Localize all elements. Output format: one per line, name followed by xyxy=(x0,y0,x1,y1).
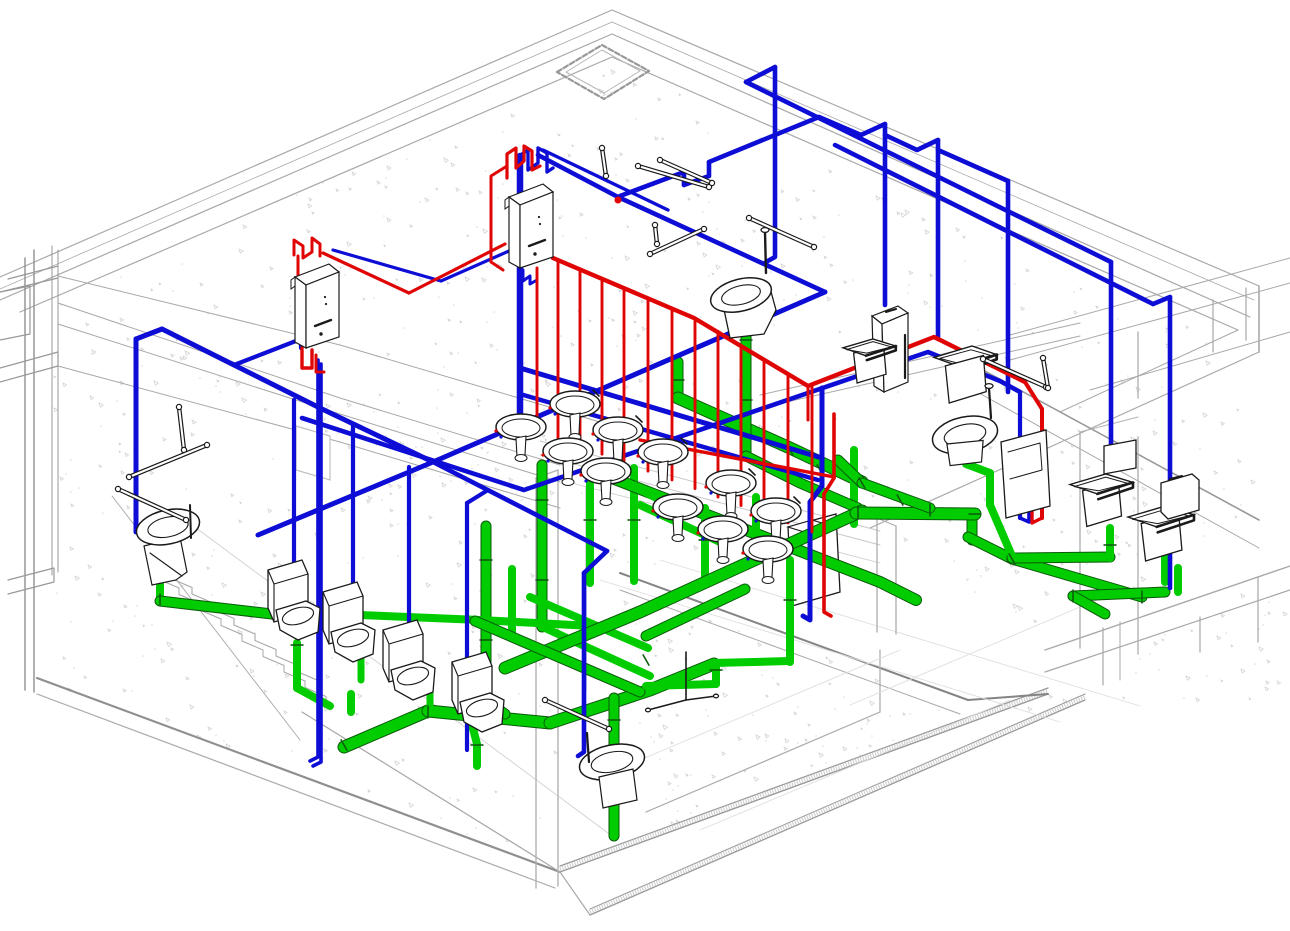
red comb drop 4 xyxy=(623,288,626,462)
lavatory basin row1 3 xyxy=(638,438,688,489)
green lav stack 3 xyxy=(537,465,548,627)
green wall toilet drain elbow xyxy=(746,456,858,508)
bottom toilet bowl xyxy=(576,739,648,786)
toilet upper right tall tank xyxy=(872,306,908,392)
right bench leg 2 xyxy=(1199,617,1201,652)
handicap toilet left brace xyxy=(150,553,182,576)
right bench leg 3 xyxy=(1257,578,1259,642)
blue riser left elbow xyxy=(136,329,162,339)
roof ceiling inner edge xyxy=(20,57,1238,330)
right bench leg 1 xyxy=(1102,628,1104,685)
right wall face speckle texture xyxy=(904,409,1255,623)
right partition top xyxy=(1080,417,1138,432)
blue pair V from heater1 xyxy=(333,250,509,281)
lavatory basin row1 2 xyxy=(593,416,643,467)
red feeder central xyxy=(640,440,834,477)
basin supply connection dots xyxy=(494,406,757,560)
square sink right B xyxy=(1128,506,1194,561)
cistern small right xyxy=(1104,440,1136,474)
green lav diag 1 xyxy=(530,597,648,648)
red hook under heater1 b xyxy=(316,355,324,372)
roof right corner vertical edge xyxy=(1258,286,1260,352)
red pair rise to heater2 xyxy=(409,244,505,293)
left ledge bottom xyxy=(8,568,54,594)
blue hook right cluster xyxy=(1020,500,1029,522)
toilet 5 cistern type xyxy=(452,652,504,732)
wall toilet flush cap xyxy=(761,228,769,233)
grab bar right cluster xyxy=(980,356,1048,389)
roof post right 2 xyxy=(1245,288,1247,340)
wc partition wall left edge2 xyxy=(557,470,559,886)
green sink A drop xyxy=(1106,528,1114,558)
red junction dot xyxy=(615,197,622,204)
lavatory basin row1 5 xyxy=(751,497,801,548)
mid partition edge 1 xyxy=(876,518,878,632)
right floor edge lower xyxy=(970,388,1259,548)
blue H3 elbow xyxy=(1153,297,1170,304)
green drain handicap toilet vertical xyxy=(156,575,164,601)
green right diag from manifold xyxy=(968,537,1012,559)
blue branch down right xyxy=(433,462,607,551)
roof skylight inner xyxy=(566,50,640,93)
green main run left cap xyxy=(344,711,428,747)
green vertical x790 xyxy=(786,560,794,662)
blue heater2 zigzag xyxy=(519,148,553,180)
blue riser toilet 4 xyxy=(407,467,411,667)
toilet 2 cistern type xyxy=(268,560,320,640)
blue riser left xyxy=(134,339,139,532)
green vertical x756 xyxy=(752,497,760,529)
square sink mid cluster xyxy=(843,339,896,383)
floor slab lower hatched edge xyxy=(590,700,1085,915)
red comb drop 9 xyxy=(740,346,743,506)
green lav stack 1 xyxy=(486,526,505,714)
flush pipe right cluster xyxy=(904,335,906,378)
blue riser x1008 xyxy=(1006,181,1011,392)
mid wall bottom edge xyxy=(646,712,880,812)
left pilaster column edge 2 xyxy=(33,250,35,692)
green toilet right drain xyxy=(1174,568,1182,592)
right bench front edge xyxy=(1045,590,1290,672)
floor tile joint 2 xyxy=(660,560,1140,706)
wall niche below heater 1 xyxy=(296,426,330,480)
red vertical x834 xyxy=(832,414,836,478)
right toilet Tb flush pipe xyxy=(989,388,991,418)
grab bar top 2 xyxy=(635,163,711,189)
right partition 1 xyxy=(1079,432,1081,648)
red comb drop 6 xyxy=(671,309,674,480)
green manifold horizontal xyxy=(856,513,975,514)
floor slab front-left hatched edge xyxy=(560,694,1048,872)
green main run rise xyxy=(550,664,714,723)
green lav diag 2 xyxy=(545,628,650,676)
grab bar left vertical xyxy=(176,404,186,452)
green lav row run xyxy=(360,615,610,627)
green right horizontal 2 xyxy=(1073,592,1165,596)
staircase steps xyxy=(150,563,318,687)
blue drop heater1 stub xyxy=(299,339,303,348)
red heater2 left loop xyxy=(491,166,507,270)
lavatory basin row2 5 xyxy=(698,516,748,564)
water heater 1 xyxy=(291,264,339,348)
blue header jog 1 xyxy=(620,172,684,196)
lavatory basin row2 4 xyxy=(653,494,703,542)
left pilaster column outer edge xyxy=(24,258,26,690)
left wall band line 4 xyxy=(58,366,560,508)
floor tile joint 4 xyxy=(640,650,900,760)
roof seam line left xyxy=(0,22,612,289)
green sink B drop xyxy=(1161,558,1169,582)
green manifold drop connector xyxy=(967,514,978,540)
wall toilet bowl xyxy=(707,272,775,318)
blue riser x1111 xyxy=(1109,262,1114,445)
stair stringer line xyxy=(112,496,300,740)
lavatory counter line 2 xyxy=(540,455,880,545)
green pipe fitting marks xyxy=(160,340,1142,800)
blue header to J2 xyxy=(709,117,819,162)
red comb drop 10 xyxy=(763,360,766,514)
green lav stack 2 xyxy=(508,569,516,637)
green upper lav diag b xyxy=(640,505,720,542)
blue tee riser x517 branch xyxy=(520,368,822,458)
urinal panel inner xyxy=(1008,443,1042,479)
lavatory basin row1 1 xyxy=(550,390,600,441)
red comb drop 7 xyxy=(694,319,697,489)
toilet right square type xyxy=(934,346,997,403)
mid lower wall face speckle texture xyxy=(624,601,879,800)
blue header jog 2 xyxy=(684,162,709,185)
grab bar right vertical xyxy=(1040,355,1050,390)
green upper lav diag a xyxy=(604,470,660,500)
red rail elbow xyxy=(1025,382,1042,409)
red heater2 zigzag xyxy=(507,146,540,178)
square sink right A xyxy=(1070,474,1133,527)
toilet 4 cistern type xyxy=(383,620,435,700)
green drain toilet 4 xyxy=(427,688,434,706)
floor slab front-left hatch ticks xyxy=(560,691,1048,869)
red comb drop 2 xyxy=(579,270,582,446)
toilet far right tank xyxy=(1161,474,1199,519)
right wall band 2 xyxy=(1010,283,1290,360)
green elbow x716 xyxy=(712,663,720,684)
green drain toilet 3 xyxy=(358,658,365,680)
left wall band line 2 xyxy=(58,303,560,465)
wc partition wall right xyxy=(585,486,587,690)
stair stringer second xyxy=(180,516,612,836)
floor slab front-left hatched edge b xyxy=(560,688,1048,866)
roof fascia bottom right edge xyxy=(870,352,1259,528)
green right diag 2 xyxy=(1012,559,1142,597)
left wall band line 3 xyxy=(58,324,560,482)
red comb drop 1 xyxy=(557,260,560,438)
red hooks under heater1 xyxy=(302,348,312,368)
red comb drop 8 xyxy=(717,332,720,497)
green right stub xyxy=(1073,596,1105,614)
left ledge lower xyxy=(0,352,58,382)
floor slab left lower edge xyxy=(302,712,590,915)
grab bar top 1 xyxy=(599,145,608,178)
red heater1 zigzag xyxy=(294,238,320,258)
roof fascia bottom right inner xyxy=(1060,330,1238,412)
green manifold upper branch 2 xyxy=(862,483,930,508)
grab bar handicap diag xyxy=(115,486,188,522)
red comb drop heater xyxy=(536,268,539,432)
blue riser x885 xyxy=(883,124,888,305)
red hook x1042 xyxy=(1032,505,1042,523)
lavatory basin row2 1 xyxy=(496,414,546,462)
blue header peak tap 1 xyxy=(819,117,885,135)
blue riser x467 tap xyxy=(467,490,488,503)
thin pipe bottom vertical xyxy=(685,652,687,700)
handicap toilet left bowl xyxy=(133,504,203,551)
green manifold upper branch xyxy=(838,460,862,483)
staircase steps inner xyxy=(158,579,326,703)
left wall bottom edge inner xyxy=(37,694,555,888)
right column mid xyxy=(1137,332,1139,398)
right toilet Tb bowl xyxy=(929,411,1001,466)
green right upper elbow xyxy=(966,464,990,473)
green vertical x705 xyxy=(701,508,709,580)
floor slab lower hatched edge b xyxy=(590,694,1085,909)
lavatory basin row1 4 xyxy=(706,469,756,520)
lavatory basin row2 6 xyxy=(743,536,793,584)
red comb rail xyxy=(553,258,1025,386)
red pair heater1 to V xyxy=(323,253,409,293)
blue elbow to riser x584 xyxy=(584,551,607,573)
water heater 2 xyxy=(505,184,553,268)
roof post right 1 xyxy=(1212,300,1214,352)
thin pipe cap b xyxy=(714,694,719,698)
roof fascia inner edge xyxy=(0,34,1250,317)
right back wall band 1 xyxy=(760,323,1080,395)
blue header seg 3 xyxy=(938,150,1008,181)
green right connect xyxy=(990,505,1012,556)
blue vertical right cluster xyxy=(1018,392,1022,518)
blue diag H3 xyxy=(835,145,1153,304)
green main downleft run xyxy=(505,511,862,668)
green run from wc stack xyxy=(678,398,862,482)
blue branch to heater 1 xyxy=(234,339,301,365)
thin pipe cap a xyxy=(646,708,651,712)
bottom toilet flush pipe xyxy=(587,733,589,762)
blue jog x822 xyxy=(810,486,822,502)
trough sink unit xyxy=(788,514,840,606)
grab bar mid left xyxy=(647,226,706,256)
green wall toilet drain xyxy=(741,315,752,456)
grab bar left horizontal xyxy=(126,442,209,479)
blue double vertical a xyxy=(310,360,318,761)
blue heater2 pair second xyxy=(543,150,668,210)
blue riser x1170 xyxy=(1168,297,1173,588)
blue second central diagonal xyxy=(520,394,818,480)
left wall bottom edge double xyxy=(37,678,560,872)
roof outer edge xyxy=(0,10,1259,286)
red vertical x824 xyxy=(824,494,831,616)
upper floor front edge inner xyxy=(620,590,960,714)
blue V supply run xyxy=(302,352,1020,490)
lavatory basin row2 2 xyxy=(543,438,593,486)
green lav stack 5 xyxy=(630,468,638,581)
blue riser toilet 3 xyxy=(351,424,355,637)
left pilaster column edge 3 xyxy=(51,246,53,575)
roof skylight opening xyxy=(557,45,649,99)
roof seam line right xyxy=(612,22,1254,300)
blue long diag H2 xyxy=(746,82,1111,262)
right toilet Tb flush cap xyxy=(985,384,993,389)
grab bar bottom toilet xyxy=(542,697,611,731)
blue riser toilet 2 xyxy=(292,400,296,606)
wall toilet flush pipe vert xyxy=(765,232,766,273)
right partition 2 xyxy=(1137,437,1139,654)
green lav stack 4 xyxy=(586,468,594,583)
blue riser x775 xyxy=(766,67,775,262)
green second long diagonal xyxy=(612,478,916,600)
left pilaster column edge 4 xyxy=(57,250,59,572)
blue riser x938 xyxy=(936,140,941,338)
green vertical x854 xyxy=(850,450,858,524)
mid partition top xyxy=(877,518,896,526)
green lav long diag xyxy=(475,621,640,692)
grab bar near wall toilet xyxy=(746,215,816,249)
blue riser toilet 3 tap xyxy=(347,421,353,424)
blue header seg 2 xyxy=(885,135,938,150)
blue vertical x822 xyxy=(820,388,825,486)
left pilaster capital top xyxy=(8,266,58,279)
left wall face speckle texture xyxy=(54,323,557,842)
red heater1 drop xyxy=(297,256,300,276)
mid partition edge 2 xyxy=(895,526,897,634)
green drop stack behind toilet xyxy=(609,698,620,836)
green drain toilet 2 vertical xyxy=(293,643,301,688)
floor tile joint 1 xyxy=(600,580,1060,722)
green drain run to toilet 2 xyxy=(160,601,272,614)
red comb drop 3 xyxy=(601,279,604,454)
blue riser x584 xyxy=(578,573,584,756)
blue thick riser x517 xyxy=(517,156,524,420)
blue riser x467 xyxy=(465,503,469,750)
green drain toilet 2 elbow xyxy=(297,688,330,706)
left pilaster capital box xyxy=(0,286,30,340)
urinal panel right xyxy=(1001,430,1050,518)
upper floor front edge xyxy=(620,573,1048,700)
green right upper vertical xyxy=(986,473,994,505)
green branch drop xyxy=(470,717,477,766)
blue header left xyxy=(162,329,433,462)
green horizontal y683 xyxy=(646,684,716,686)
green wc stack upper xyxy=(673,362,684,396)
blue double vertical b xyxy=(313,364,321,766)
handicap toilet left frame xyxy=(144,537,187,585)
floor slab lower hatch ticks xyxy=(590,697,1085,912)
green right horizontal xyxy=(1012,557,1110,558)
right floor edge upper xyxy=(970,363,1259,520)
bottom toilet pedestal xyxy=(599,769,637,808)
right back wall band 2 xyxy=(760,336,1080,408)
red jog x834 xyxy=(824,478,834,494)
floor tile joint 3 xyxy=(700,700,1010,830)
floor tile joint 5 xyxy=(850,590,1120,705)
blue main diagonal from heater pair xyxy=(433,292,825,462)
red comb drop 11 xyxy=(787,374,790,523)
thin pipe bottom diag xyxy=(648,696,716,710)
right bench top edge xyxy=(1045,566,1290,650)
ceiling slab face speckle texture xyxy=(60,70,1210,565)
left pilaster capital mid xyxy=(0,278,58,292)
wall toilet body xyxy=(722,288,776,338)
mid wall end vertical xyxy=(879,650,881,712)
right upper beam xyxy=(1090,332,1290,390)
blue diagonal continue to toilets xyxy=(258,462,433,535)
left wall top band line 1 xyxy=(58,276,620,428)
red comb drop 12 xyxy=(811,384,814,531)
wc partition wall left xyxy=(535,478,537,888)
toilet 3 cistern type xyxy=(323,582,375,662)
handicap toilet flush pipe xyxy=(190,505,191,538)
green main run mid xyxy=(428,711,550,723)
right floor slab speckle texture xyxy=(671,594,1287,825)
grab bar top 3 xyxy=(657,157,714,185)
grab bar mid vertical xyxy=(652,222,659,246)
blue apex stub xyxy=(746,67,775,82)
lavatory basin row2 3 xyxy=(581,458,631,506)
green horizontal y661 xyxy=(713,661,790,663)
blue vertical x808 xyxy=(803,502,810,620)
wc partition top edge xyxy=(536,470,558,478)
red vertical x1042 xyxy=(1040,409,1044,518)
red comb drop 5 xyxy=(647,298,650,471)
red drop at rail corner xyxy=(807,386,810,420)
right bench leg 1b xyxy=(1119,622,1121,680)
right wall band 1 xyxy=(1010,258,1290,335)
lavatory counter line 1 xyxy=(540,441,880,531)
blue heater2 pair run xyxy=(538,155,825,292)
green stub toilet 3 xyxy=(347,694,355,712)
lavatory counter line 3 xyxy=(560,480,880,563)
green run parallel xyxy=(646,589,745,636)
blue heater2 under hooks xyxy=(523,270,537,284)
